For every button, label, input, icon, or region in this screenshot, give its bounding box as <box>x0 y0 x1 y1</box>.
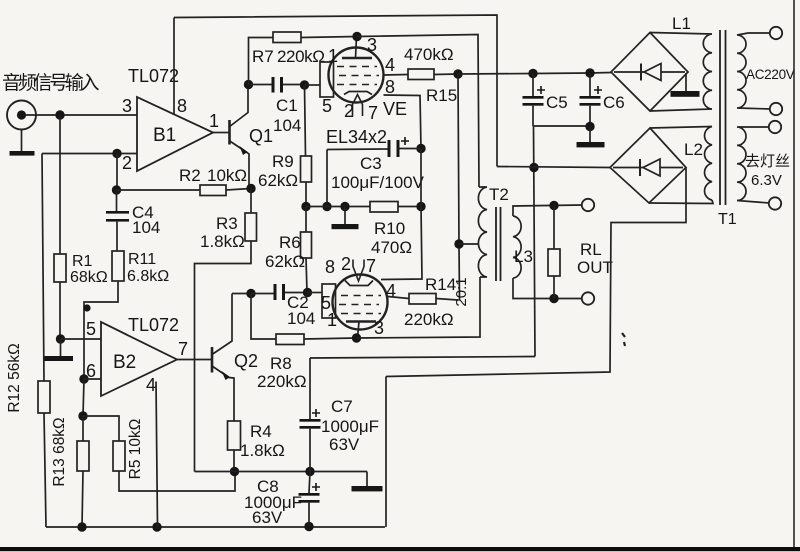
tube V1 cathode arc <box>344 92 372 95</box>
svg-text:音频信号输入: 音频信号输入 <box>2 72 100 94</box>
svg-text:L2: L2 <box>684 140 703 159</box>
transistor Q2 <box>212 294 258 422</box>
tube V2 EL34 envelope <box>333 275 388 330</box>
svg-text:AC220V: AC220V <box>746 67 795 82</box>
svg-text:R12 56kΩ: R12 56kΩ <box>6 343 23 412</box>
svg-text:R4: R4 <box>250 422 272 441</box>
node pin2 <box>112 149 121 158</box>
node tube V2 plate / R8 <box>352 333 361 342</box>
terminal heater bottom <box>769 197 781 209</box>
wire R12 to bottom rail <box>44 413 46 527</box>
resistor R10 <box>370 202 412 258</box>
tube V2 cathode arc <box>345 281 373 286</box>
svg-text:104: 104 <box>273 116 301 135</box>
svg-text:R6: R6 <box>279 233 301 252</box>
resistor R13 <box>51 416 89 527</box>
svg-text:470Ω: 470Ω <box>371 238 412 257</box>
bottom rail <box>46 526 385 528</box>
bridge rectifier L1 diamond <box>611 33 688 112</box>
terminal AC bottom <box>770 103 782 115</box>
node ground rail <box>340 202 349 211</box>
svg-text:5: 5 <box>322 96 332 116</box>
svg-text:L1: L1 <box>672 14 691 33</box>
svg-text:220kΩ: 220kΩ <box>404 310 454 329</box>
node rail R13 <box>77 522 86 531</box>
page edge right <box>793 0 795 549</box>
feedback rail y471 <box>195 471 368 473</box>
svg-text:R14: R14 <box>425 275 456 294</box>
node C1 / grid1 / R9 <box>300 80 309 89</box>
capacitor C4 <box>106 190 160 251</box>
svg-text:R1: R1 <box>72 253 93 270</box>
transformer T1 core <box>720 30 726 205</box>
svg-text:7: 7 <box>368 103 378 123</box>
svg-text:3: 3 <box>367 35 377 55</box>
wire R2 to node Q1e <box>226 189 251 191</box>
node C6 bottom ground <box>585 122 594 131</box>
svg-text:3: 3 <box>374 318 384 338</box>
tube V2 grid box <box>322 284 336 318</box>
resistor R2 <box>179 166 247 196</box>
node C7 bottom <box>305 467 314 476</box>
capacitor C3 <box>327 137 425 192</box>
svg-text:R5 10kΩ: R5 10kΩ <box>127 419 144 480</box>
wire C1 node to grid box <box>305 84 321 86</box>
tube V1 heater <box>353 95 363 117</box>
svg-text:R3: R3 <box>216 214 238 233</box>
tube V2 plate stub <box>358 322 360 339</box>
svg-text:7: 7 <box>178 339 188 359</box>
wire pin8 of B1 up <box>173 18 175 116</box>
resistor R15 <box>404 45 458 105</box>
svg-text:T1: T1 <box>718 211 737 228</box>
page edge bottom bar <box>0 547 800 551</box>
svg-text:去灯丝: 去灯丝 <box>745 153 790 170</box>
node C3 right / VE <box>416 144 425 153</box>
svg-text:5: 5 <box>86 319 96 339</box>
resistor R7 <box>249 32 358 85</box>
resistor R14 <box>404 275 458 329</box>
svg-text:8: 8 <box>385 77 395 97</box>
node R4 bottom <box>230 467 239 476</box>
transistor Q1 <box>229 85 273 187</box>
node C3 left rail <box>322 202 331 211</box>
transformer T2 core <box>496 207 501 281</box>
svg-text:62kΩ: 62kΩ <box>265 252 305 271</box>
svg-text:2: 2 <box>344 101 354 121</box>
ground (C7 rail) <box>352 472 383 492</box>
svg-text:R8: R8 <box>270 354 292 373</box>
svg-text:6: 6 <box>86 361 96 381</box>
node C5 top <box>528 69 537 78</box>
svg-text:7: 7 <box>366 256 376 276</box>
capacitor C2 <box>251 284 315 328</box>
svg-text:TL072: TL072 <box>128 66 179 86</box>
wire input to pin3 of B1 <box>26 114 137 116</box>
wire tap to T2 <box>459 243 479 245</box>
svg-text:1: 1 <box>327 310 337 330</box>
wire node to R1 <box>59 115 61 254</box>
wire Q2 collector to C2 node <box>232 293 251 295</box>
inductor L3 secondary winding <box>513 216 521 278</box>
node C2/Q2/R8 <box>246 289 255 298</box>
svg-text:6.8kΩ: 6.8kΩ <box>127 268 169 285</box>
capacitor C5 <box>523 74 568 127</box>
resistor R3 <box>195 189 257 472</box>
svg-text:1: 1 <box>209 111 219 131</box>
tube V1 grid dashes <box>337 67 379 85</box>
svg-text:8: 8 <box>177 96 187 116</box>
svg-text:R13 68kΩ: R13 68kΩ <box>51 417 68 486</box>
svg-text:RL: RL <box>580 240 602 259</box>
svg-text:100μF/100V: 100μF/100V <box>331 173 425 192</box>
svg-text:C3: C3 <box>360 154 382 173</box>
svg-text:Q1: Q1 <box>249 126 273 146</box>
svg-text:6.3V: 6.3V <box>751 172 782 189</box>
wire R9 chain <box>305 85 306 156</box>
node T2 tap <box>454 239 463 248</box>
svg-text:220kΩ: 220kΩ <box>257 372 307 391</box>
wire left rail down through R12 <box>42 154 44 382</box>
node R1/pin5/ground <box>56 334 65 343</box>
wire top supply to right <box>174 15 497 167</box>
wire pin2 node down <box>116 154 118 191</box>
resistor R8 <box>251 294 356 392</box>
svg-text:1: 1 <box>328 46 338 66</box>
resistor R1 <box>54 253 108 286</box>
node Q1 emitter / R2 / R3 <box>246 184 255 193</box>
wire V1 pin4 to R15 <box>384 74 409 77</box>
tube V1 EL34 envelope <box>329 48 384 103</box>
svg-text:B2: B2 <box>113 352 136 373</box>
svg-text:3: 3 <box>122 96 132 116</box>
svg-text:T2: T2 <box>489 185 509 204</box>
node RL bottom <box>549 294 558 303</box>
wire DC feedback loop <box>386 168 686 528</box>
winding L1 <box>650 33 712 112</box>
wire VE vertical to V2 cathode <box>381 149 422 280</box>
ground (bridge L1) <box>671 73 700 97</box>
wire V1 pin3 to T2 top <box>357 35 479 188</box>
winding T1 primary AC <box>737 33 771 109</box>
svg-text:1000μF: 1000μF <box>321 417 379 436</box>
wire pin2 horizontal <box>42 153 137 155</box>
tube V2 plate bar <box>346 320 376 322</box>
ground (cathode rail) <box>332 207 359 230</box>
svg-text:Q2: Q2 <box>234 351 258 371</box>
cathode rail y206 <box>306 206 421 208</box>
wire C2 node to grid box 2 <box>308 292 323 294</box>
scan artifact <box>622 333 625 346</box>
capacitor C8 <box>244 472 320 528</box>
wire node to R2 <box>117 189 201 191</box>
wire C5 to C6 bottoms <box>533 125 590 127</box>
node Q1 collector / R7 / C1 <box>244 80 253 89</box>
ground (B2 pin5) <box>44 356 73 361</box>
bridge L2 diode <box>613 159 683 176</box>
resistor R5 <box>83 416 235 491</box>
terminal AC top <box>770 27 782 39</box>
ground (filter caps) <box>577 127 605 148</box>
node C2 / grid2 / R6 <box>303 288 312 297</box>
resistor R6 <box>265 207 312 293</box>
svg-text:20:1: 20:1 <box>453 277 470 306</box>
wire node to ground stub <box>60 339 62 356</box>
svg-text:4: 4 <box>386 281 396 301</box>
resistor R11 <box>112 251 169 285</box>
wire L3 top to terminal <box>513 205 583 216</box>
svg-text:EL34x2: EL34x2 <box>326 127 387 147</box>
node rail pin4 <box>152 522 161 531</box>
tube V1 grid box <box>320 62 334 97</box>
svg-text:4: 4 <box>385 55 395 75</box>
input jack J1 <box>7 101 36 130</box>
resistor RL <box>548 206 613 299</box>
capacitor C6 <box>580 73 625 127</box>
node pin2/R2/C4 <box>112 185 121 194</box>
node R13/R5 <box>78 411 87 420</box>
terminal heater top <box>769 121 781 133</box>
svg-text:1.8kΩ: 1.8kΩ <box>200 232 245 251</box>
tube V2 grid dashes <box>339 296 381 314</box>
resistor R4 <box>228 421 285 472</box>
rail to L2 bridge <box>497 167 610 168</box>
svg-text:104: 104 <box>132 218 160 237</box>
svg-text:62kΩ: 62kΩ <box>258 171 298 190</box>
wire V2 pin4 to R14 <box>388 297 409 299</box>
svg-text:OUT: OUT <box>577 258 613 277</box>
svg-text:R9: R9 <box>272 152 294 171</box>
svg-text:R11: R11 <box>128 251 156 268</box>
wire B+ vertical R15 to R14 <box>458 74 460 300</box>
wire R1 to pin5 node <box>59 282 61 339</box>
bridge rectifier L2 diamond <box>610 128 686 203</box>
node C6 top <box>585 68 594 77</box>
bridge L1 diode <box>614 64 685 81</box>
resistor R12 <box>6 343 50 413</box>
wire pin6 down to R13 <box>83 379 84 416</box>
wire V1 pin8 down to C3 node <box>384 95 422 149</box>
svg-text:1.8kΩ: 1.8kΩ <box>240 441 285 460</box>
svg-text:2: 2 <box>341 254 351 274</box>
node input/R1 <box>55 110 64 119</box>
resistor R9 <box>258 152 312 206</box>
node pin6 <box>79 374 88 383</box>
node RL top <box>549 201 558 210</box>
op-amp B2 TL072 <box>101 315 179 396</box>
svg-text:C5: C5 <box>546 93 568 112</box>
svg-text:C6: C6 <box>603 93 625 112</box>
svg-text:TL072: TL072 <box>128 315 179 335</box>
wire ground bus vertical <box>534 126 536 357</box>
wire L3 bottom to terminal <box>513 278 583 299</box>
terminal OUT top <box>582 199 594 211</box>
node R9/R6 rail <box>301 202 310 211</box>
terminal OUT bottom <box>582 292 594 304</box>
tube V2 heater <box>353 260 364 282</box>
node tube V1 pin3 <box>352 32 361 41</box>
wire B1 output to Q1 base <box>213 132 229 134</box>
winding L2 <box>649 127 713 204</box>
winding T1 heater 6.3V <box>737 127 770 203</box>
capacitor C7 <box>300 358 380 472</box>
wire C3 left down to rail <box>326 150 328 207</box>
svg-text:R15: R15 <box>426 86 457 105</box>
svg-text:B1: B1 <box>153 125 176 146</box>
wire B2 output to Q2 base <box>177 359 212 361</box>
svg-text:63V: 63V <box>329 435 360 454</box>
svg-text:220kΩ: 220kΩ <box>277 47 325 66</box>
svg-text:63V: 63V <box>252 508 283 527</box>
wire pin6 to B2 <box>84 378 101 380</box>
svg-text:C7: C7 <box>331 397 353 416</box>
svg-text:10kΩ: 10kΩ <box>207 166 247 185</box>
wire pin4 of B2 down <box>156 382 158 528</box>
wire pin5 to B2 <box>61 338 102 340</box>
svg-text:R7: R7 <box>252 47 274 66</box>
node rail C8 <box>304 522 313 531</box>
svg-text:R2: R2 <box>179 166 201 185</box>
tube V1 plate stub to pin3 node <box>356 37 357 59</box>
svg-text:2: 2 <box>122 153 132 173</box>
wire V2 plate to T2 bottom <box>357 277 481 338</box>
svg-text:470kΩ: 470kΩ <box>404 45 454 64</box>
svg-text:68kΩ: 68kΩ <box>70 269 108 286</box>
svg-text:VE: VE <box>383 99 407 119</box>
svg-text:L3: L3 <box>514 247 533 266</box>
svg-text:104: 104 <box>287 309 315 328</box>
svg-text:C1: C1 <box>276 96 298 115</box>
node R10 right / VE vertical <box>416 202 425 211</box>
node R15 / B+ <box>453 69 462 78</box>
svg-text:4: 4 <box>146 375 156 395</box>
node ground bus / L2 rail <box>529 163 538 172</box>
tube V1 plate bar <box>342 57 372 59</box>
node R11 corner <box>83 304 90 311</box>
svg-text:8: 8 <box>325 257 335 277</box>
wire R11 to pin6 <box>84 281 118 379</box>
wire input to ground <box>21 130 23 152</box>
ground (input jack) <box>10 151 35 156</box>
wire C7 top feedback to ground bus <box>310 357 535 359</box>
capacitor C1 <box>249 77 305 135</box>
op-amp B1 TL072 <box>128 66 213 171</box>
transformer T2 primary winding <box>478 187 487 277</box>
B+ rail to bridges <box>458 73 611 75</box>
svg-text:R10: R10 <box>374 219 405 238</box>
